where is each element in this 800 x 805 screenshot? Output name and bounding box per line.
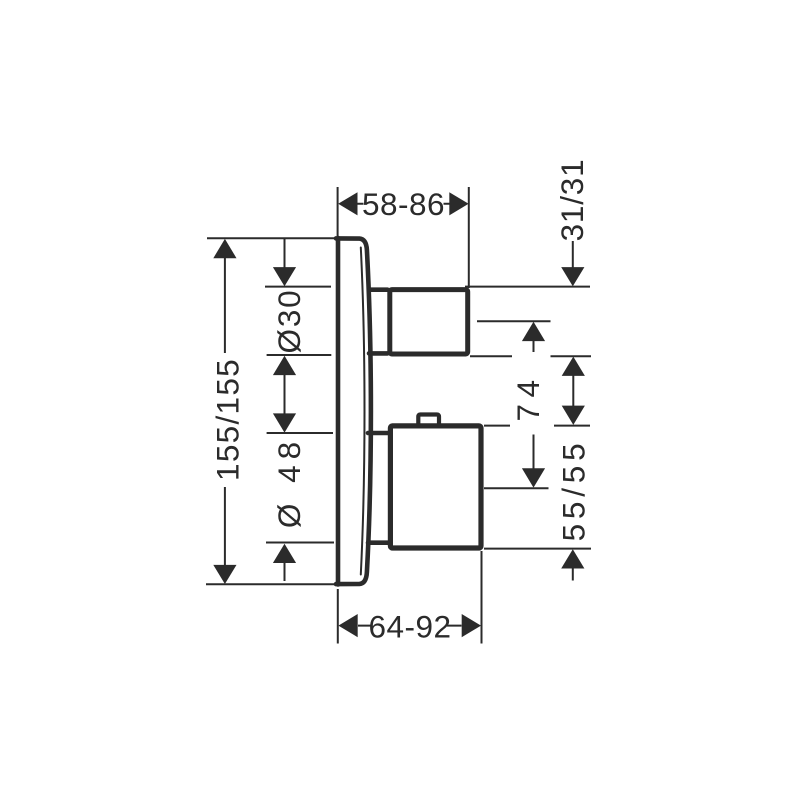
- wire ext 58-86 right: [468, 187, 470, 288]
- svg-text:Ø30: Ø30: [271, 289, 307, 354]
- stem bottom knob: [368, 433, 388, 543]
- wire dim 64-92 stubs: [358, 625, 462, 627]
- wire shaft 55/55: [572, 568, 574, 581]
- arrow 55/55 up: [561, 549, 584, 568]
- wire ext right knobbot1: [470, 355, 591, 357]
- wire shaft dia48 bottom: [284, 562, 286, 581]
- wire ext left knobtop: [265, 286, 331, 288]
- stem top knob: [369, 290, 388, 354]
- wire shaft 31/31: [572, 241, 574, 268]
- svg-text:74: 74: [510, 373, 546, 421]
- wire ext left stemtop: [267, 432, 333, 434]
- wire ext 64-92 left: [337, 589, 339, 644]
- wire ext 58-86 left: [337, 187, 339, 236]
- arrow 74 up: [562, 357, 585, 376]
- arrow mid down: [273, 413, 296, 432]
- wire ext right knobtop: [465, 286, 590, 288]
- svg-text:31/31: 31/31: [554, 159, 590, 242]
- knob bottom (volume control): [390, 426, 481, 548]
- arrow centers down: [522, 468, 545, 487]
- wire shaft centers bottom: [533, 435, 535, 470]
- arrow dia48 up: [273, 544, 296, 563]
- wire ext 155 top: [207, 237, 338, 239]
- knob top (thermostat small): [390, 290, 468, 354]
- arrow centers up: [522, 322, 545, 341]
- wire shaft centers top: [533, 341, 535, 352]
- plate left edge: [336, 238, 341, 585]
- wire shaft 155 bottom: [224, 487, 226, 566]
- svg-text:55/55: 55/55: [556, 439, 592, 542]
- arrow 64-92 left: [338, 614, 357, 637]
- wire shaft 155 top: [224, 258, 226, 353]
- arrow 155 down: [213, 565, 236, 584]
- wire shaft dia30 top: [284, 239, 286, 268]
- button tab: [418, 415, 439, 428]
- arrow mid up: [273, 356, 296, 375]
- wire ext right knobtop2: [484, 425, 590, 427]
- plate outline: [336, 238, 371, 584]
- arrow 74 down: [562, 406, 585, 425]
- wire ext left knobbot: [267, 354, 332, 356]
- arrow 155 up: [213, 239, 236, 258]
- svg-text:155/155: 155/155: [210, 358, 246, 481]
- svg-text:58-86: 58-86: [362, 186, 445, 222]
- arrow dia30 down: [273, 267, 296, 286]
- wire ext left stembot: [266, 542, 334, 544]
- arrow 31/31 down: [561, 267, 584, 286]
- wire shaft 74: [572, 375, 574, 407]
- svg-text:Ø 48: Ø 48: [271, 436, 307, 528]
- wire ext right knobcenter1: [477, 320, 551, 322]
- wire ext 155 bottom: [206, 583, 336, 585]
- wire dim 58-86 stubs: [358, 203, 451, 205]
- wire ext right knobcenter2: [484, 487, 549, 489]
- plate inner curve: [361, 248, 365, 575]
- arrow 64-92 right: [462, 614, 481, 637]
- wire ext right knobbot2: [484, 548, 591, 550]
- wire ext 64-92 right: [481, 551, 483, 644]
- arrow 58-86 left: [338, 192, 357, 215]
- svg-text:64-92: 64-92: [368, 608, 451, 644]
- arrow 58-86 right: [449, 192, 468, 215]
- wire shaft dia30-48 mid: [284, 375, 286, 415]
